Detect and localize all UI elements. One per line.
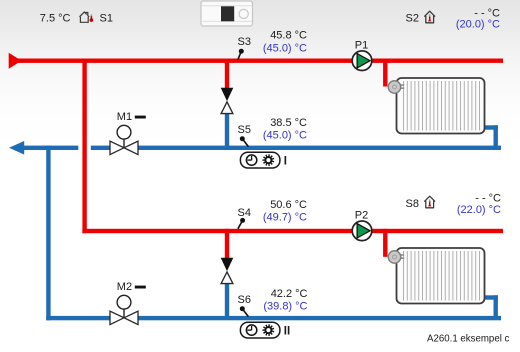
wire: blue return line 1 with flow arrow (gap at red crossing and at valve M1) — [9, 141, 501, 155]
wire: radiator 1 drain — [484, 125, 498, 150]
controller II gear icon — [263, 324, 275, 336]
mixing/check valve I white cone — [221, 102, 233, 114]
motor valve M2 actuator — [117, 295, 131, 317]
svg-text:M2: M2 — [117, 281, 132, 293]
svg-text:S2: S2 — [406, 13, 419, 25]
svg-text:M1: M1 — [117, 111, 132, 123]
wire: radiator 2 drain — [484, 295, 498, 320]
sensor S6 — [240, 306, 249, 316]
thermostatic valve on radiator 1 — [388, 81, 404, 93]
svg-text:7.5 °C: 7.5 °C — [40, 13, 71, 25]
room sensor icon S8 — [425, 196, 435, 208]
wire: red supply line 2 — [82, 229, 503, 233]
M1 state dash — [135, 116, 146, 119]
wire: blue below mixing valve I — [225, 113, 229, 150]
svg-text:(45.0) °C: (45.0) °C — [263, 130, 307, 142]
svg-text:S3: S3 — [238, 36, 251, 48]
pump P1 — [352, 51, 372, 71]
controller II clock icon — [246, 325, 256, 335]
wire: red drop to radiator 1 valve — [383, 59, 387, 87]
outdoor sensor icon S1 — [80, 12, 94, 22]
svg-text:42.2 °C: 42.2 °C — [271, 288, 308, 300]
svg-text:45.8 °C: 45.8 °C — [270, 29, 307, 41]
wire: red branch to mixing valve I — [225, 59, 229, 89]
wire: blue return line 2 (gap at valve M2) — [46, 316, 501, 320]
svg-text:50.6 °C: 50.6 °C — [270, 199, 307, 211]
sensor S4 — [238, 218, 245, 229]
controller II box — [240, 322, 280, 338]
controller I gear icon — [263, 154, 275, 166]
svg-text:P1: P1 — [355, 39, 368, 51]
room sensor icon S2 — [425, 11, 435, 23]
mixing/check valve II black cone — [221, 258, 234, 271]
wire: red branch to mixing valve II — [225, 229, 229, 259]
svg-text:(20.0) °C: (20.0) °C — [456, 19, 500, 31]
controller I clock icon — [246, 155, 256, 165]
wire: red drop to radiator 2 valve — [383, 229, 387, 257]
svg-text:(22.0) °C: (22.0) °C — [457, 204, 501, 216]
motor valve M1 actuator — [117, 125, 131, 148]
svg-text:38.5 °C: 38.5 °C — [270, 117, 307, 129]
svg-text:A260.1 eksempel c: A260.1 eksempel c — [427, 334, 510, 345]
M2 state dash — [135, 286, 146, 289]
pump P2 — [352, 221, 372, 241]
svg-text:I: I — [284, 156, 287, 168]
mixing/check valve II white cone — [221, 272, 233, 284]
svg-text:(49.7) °C: (49.7) °C — [263, 211, 307, 223]
mixing/check valve I black cone — [221, 88, 234, 101]
svg-text:S4: S4 — [238, 207, 251, 219]
sensor S3 — [238, 49, 244, 60]
thermostatic valve on radiator 2 — [388, 251, 404, 263]
svg-text:S1: S1 — [100, 13, 113, 25]
svg-text:(39.8) °C: (39.8) °C — [263, 301, 307, 313]
wire: blue vertical return from circuit 2 — [46, 146, 50, 321]
motor valve M1 body — [110, 141, 138, 154]
svg-text:S6: S6 — [238, 294, 251, 306]
svg-text:(45.0) °C: (45.0) °C — [263, 43, 307, 55]
svg-text:II: II — [284, 326, 290, 338]
radiator 2 — [397, 248, 485, 304]
sensor S5 — [240, 136, 249, 146]
wire: red vertical drop to circuit 2 — [82, 59, 86, 234]
svg-text:S5: S5 — [238, 124, 251, 136]
wire: red supply line 1 with flow arrow — [9, 53, 503, 69]
controller I box — [240, 152, 280, 168]
radiator 1 — [397, 78, 485, 134]
svg-text:- - °C: - - °C — [475, 193, 501, 205]
room control unit (top) — [201, 1, 253, 26]
svg-text:P2: P2 — [355, 209, 368, 221]
wire: blue below mixing valve II — [225, 283, 229, 320]
motor valve M2 body — [110, 311, 138, 324]
svg-text:S8: S8 — [406, 198, 419, 210]
